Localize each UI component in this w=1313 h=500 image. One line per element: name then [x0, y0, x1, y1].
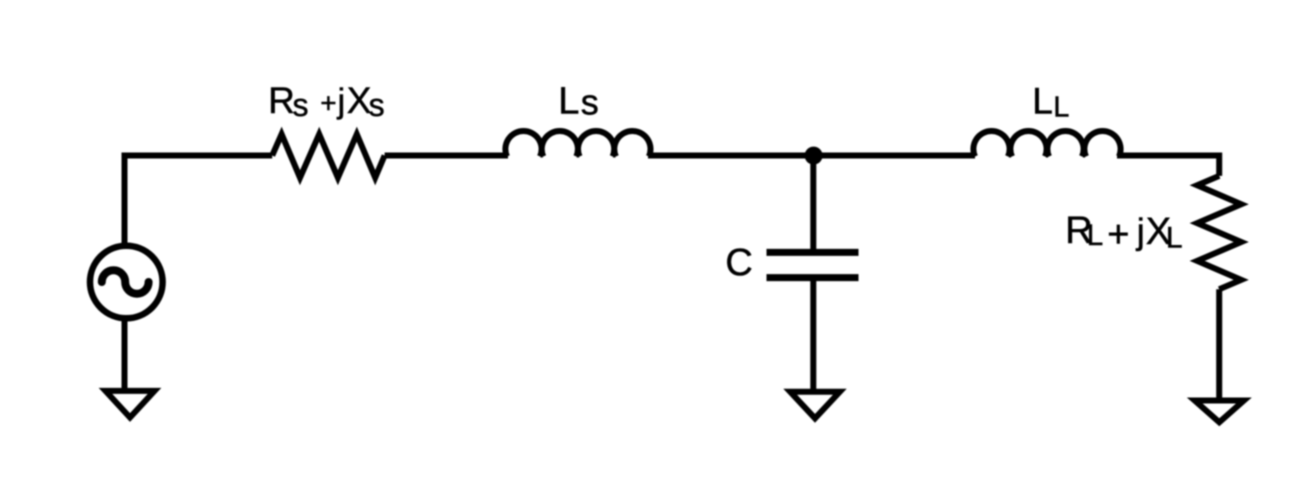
- wire capacitor to middle ground: [810, 278, 816, 393]
- node junction dot: [805, 147, 823, 165]
- wire RL to right ground: [1216, 289, 1222, 402]
- label Ls: [558, 80, 599, 122]
- svg-text:s: s: [581, 82, 599, 123]
- inductor L_L (four humps): [973, 131, 1120, 157]
- label LL: [1032, 80, 1069, 123]
- AC source V1 circle: [90, 246, 163, 319]
- svg-text:L: L: [1053, 91, 1069, 123]
- AC source sine wave: [102, 270, 149, 293]
- svg-text:L: L: [1166, 221, 1183, 254]
- ground right: [1195, 401, 1244, 423]
- wire node down to capacitor: [810, 156, 816, 250]
- resistor R_S zigzag: [272, 134, 384, 178]
- svg-text:L: L: [1087, 219, 1103, 252]
- svg-text:C: C: [725, 242, 752, 284]
- ground middle: [790, 392, 840, 419]
- label Rs +jXs: [268, 80, 385, 123]
- svg-text:+: +: [1107, 214, 1129, 256]
- wire top-left from source to resistor Rs: [125, 156, 273, 246]
- ground left: [106, 391, 155, 418]
- wire between Rs and Ls: [385, 153, 508, 159]
- svg-text:s: s: [369, 87, 385, 123]
- inductor L_S (four humps): [505, 131, 650, 157]
- svg-text:L: L: [558, 80, 579, 122]
- wire LL to right corner and down: [1117, 156, 1219, 176]
- resistor R_L vertical zigzag: [1197, 176, 1241, 289]
- svg-text:R: R: [268, 80, 295, 121]
- wire source to left ground: [122, 318, 128, 392]
- svg-text:+: +: [320, 88, 336, 119]
- svg-text:j: j: [337, 82, 346, 120]
- svg-text:j: j: [1136, 210, 1145, 251]
- capacitor C bottom plate: [767, 274, 859, 281]
- svg-text:L: L: [1032, 80, 1053, 121]
- wire from Ls through node to LL: [648, 153, 975, 159]
- capacitor C top plate: [767, 249, 859, 256]
- label RL + jXL: [1065, 210, 1182, 256]
- svg-text:s: s: [293, 87, 309, 123]
